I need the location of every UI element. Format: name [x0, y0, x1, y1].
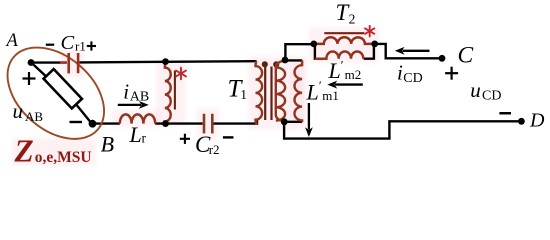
transformer T2 upper winding — [314, 37, 375, 44]
svg-text:i: i — [123, 79, 129, 103]
arrow L'm2 current — [327, 81, 363, 89]
junction: T2 right — [371, 41, 378, 48]
svg-text:r2: r2 — [209, 142, 220, 157]
arrow iAB — [118, 101, 149, 109]
svg-text:u: u — [13, 99, 24, 123]
T1 polarity dot left — [262, 61, 268, 67]
pink halo background patches — [12, 27, 379, 166]
junction: shunt bottom — [162, 120, 169, 127]
ellipse around source — [0, 29, 122, 157]
plus sign of Cr1 — [87, 41, 96, 50]
T1 polarity dot right — [273, 61, 279, 67]
wire: Lr to Cr2 — [155, 122, 203, 124]
svg-text:CD: CD — [482, 89, 501, 104]
svg-text:r: r — [142, 130, 147, 145]
wire: Cr2 to T1 primary bottom — [213, 120, 257, 124]
transformer T2 lower winding — [315, 52, 363, 59]
terminal D — [518, 118, 525, 125]
svg-text:u: u — [470, 78, 481, 102]
svg-text:AB: AB — [130, 89, 149, 104]
junction: T1 top right — [282, 57, 289, 64]
node B — [89, 120, 97, 128]
capacitor Cr2 plates — [204, 114, 212, 134]
wire: impedance box to node B — [75, 103, 92, 124]
minus sign near D — [499, 112, 511, 115]
transformer T1 core bars — [265, 67, 271, 121]
capacitor Cr1 plates — [69, 53, 78, 73]
inductor L'm1 coil — [295, 60, 303, 122]
junction: T2 left — [310, 41, 317, 48]
transformer T1 right winding — [276, 61, 285, 122]
wire: bottom run from T1 to terminal D — [284, 121, 521, 138]
node A — [28, 59, 35, 66]
wire: Cr1 to T1 primary top — [80, 61, 257, 62]
plus sign of Cr2 — [180, 134, 190, 144]
wire: T2 lower winding up to right node — [364, 44, 375, 59]
wire: L'm1 bottom to T1 bottom-right node — [284, 121, 302, 123]
asterisk of shunt winding — [176, 68, 186, 80]
svg-text:r1: r1 — [75, 38, 86, 53]
wire: T2 left node down to lower winding — [314, 44, 319, 59]
svg-text:C: C — [61, 32, 75, 54]
svg-text:B: B — [101, 131, 114, 156]
transformer T2 core bar — [324, 32, 364, 34]
svg-text:L: L — [129, 122, 142, 147]
svg-text:L: L — [306, 79, 319, 104]
shunt winding core bar — [174, 71, 176, 110]
shunt winding coil (starred) — [165, 62, 171, 124]
arrow L'm1 current (down) — [305, 103, 313, 137]
svg-text:1: 1 — [240, 87, 247, 102]
minus sign of Cr1 — [46, 44, 54, 46]
svg-text:AB: AB — [25, 109, 43, 124]
wire: diagonal A to impedance box — [31, 62, 50, 80]
minus sign of Cr2 — [223, 136, 234, 138]
svg-text:o,e,MSU: o,e,MSU — [35, 149, 92, 166]
capacitor Cr1 red lead — [60, 61, 67, 63]
junction: shunt top — [162, 58, 169, 65]
inductor Lr coil — [120, 114, 155, 123]
svg-text:m2: m2 — [345, 67, 362, 82]
plus sign near C — [445, 67, 458, 80]
plus sign near A — [23, 72, 36, 85]
wire: T1 top-right node to L'm1 top — [285, 59, 302, 61]
arrow iCD — [395, 47, 430, 55]
svg-text:2: 2 — [349, 12, 356, 27]
svg-text:A: A — [5, 31, 19, 51]
junction: T1 bottom right — [281, 118, 288, 125]
minus sign near box bottom — [70, 121, 83, 123]
wire: T2 right node to terminal C — [375, 44, 442, 58]
svg-text:D: D — [529, 109, 545, 131]
svg-text:m1: m1 — [322, 88, 339, 103]
svg-text:′: ′ — [341, 58, 344, 72]
wire: top-left from node A to Cr1 — [31, 61, 67, 63]
svg-text:C: C — [458, 42, 474, 68]
svg-text:CD: CD — [403, 71, 422, 86]
svg-text:Z: Z — [14, 134, 34, 169]
svg-text:L: L — [328, 58, 341, 83]
svg-text:i: i — [397, 60, 403, 84]
terminal C — [439, 55, 446, 62]
wire: node B to Lr — [92, 122, 120, 124]
transformer T1 left winding — [256, 61, 263, 124]
asterisk of T2 — [365, 26, 374, 37]
impedance box Zo,e,MSU — [44, 69, 82, 108]
wire: T1 top-right node up to T2 left node — [284, 44, 313, 60]
